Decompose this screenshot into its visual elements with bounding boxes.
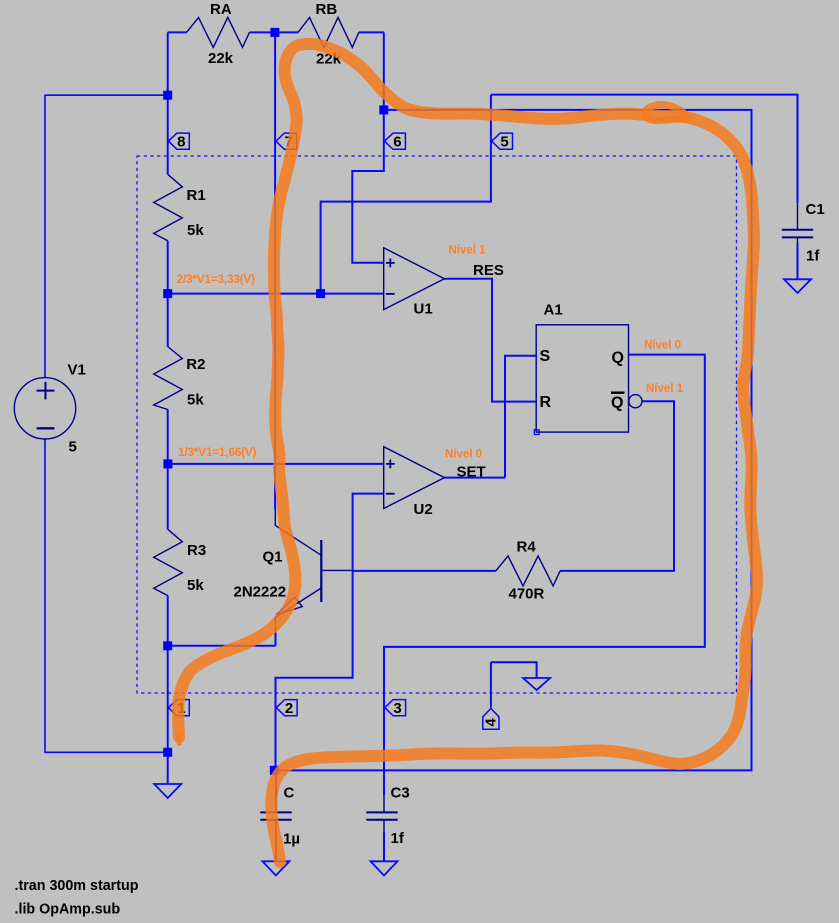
svg-text:Nível 1: Nível 1 [449,245,487,257]
svg-text:R2: R2 [186,356,205,373]
svg-text:Q1: Q1 [263,549,283,566]
svg-text:6: 6 [393,134,401,151]
svg-text:A1: A1 [544,302,563,319]
svg-text:Q: Q [612,350,624,367]
svg-text:Nível 0: Nível 0 [445,449,482,461]
svg-text:RA: RA [210,1,232,18]
svg-text:3: 3 [393,700,401,717]
svg-text:Nível 1: Nível 1 [646,383,684,395]
svg-text:R1: R1 [187,187,206,204]
svg-text:470R: 470R [509,586,545,603]
svg-text:5: 5 [69,439,77,456]
svg-text:1f: 1f [806,248,820,265]
svg-text:Q: Q [611,395,623,412]
svg-text:C1: C1 [806,201,825,218]
svg-text:Nível 0: Nível 0 [644,340,681,352]
svg-text:RB: RB [316,1,338,18]
svg-text:C: C [284,785,295,802]
svg-text:2/3*V1=3,33(V): 2/3*V1=3,33(V) [177,272,255,286]
svg-text:22k: 22k [208,50,234,67]
svg-text:SET: SET [457,464,486,481]
svg-text:.lib OpAmp.sub: .lib OpAmp.sub [15,902,121,918]
svg-text:C3: C3 [391,785,410,802]
svg-text:R4: R4 [517,539,537,556]
svg-text:8: 8 [177,134,185,151]
svg-text:5k: 5k [187,392,204,409]
svg-text:R: R [540,394,552,411]
svg-text:.tran 300m startup: .tran 300m startup [15,878,139,894]
svg-text:1/3*V1=1,66(V): 1/3*V1=1,66(V) [178,445,256,459]
svg-text:V1: V1 [68,362,86,379]
svg-text:U2: U2 [414,501,433,518]
svg-text:2: 2 [285,700,293,717]
svg-text:4: 4 [482,718,499,727]
svg-text:2N2222: 2N2222 [234,584,287,601]
svg-text:1f: 1f [391,830,405,847]
svg-text:5k: 5k [187,577,204,594]
svg-text:RES: RES [473,262,504,279]
svg-text:R3: R3 [187,542,206,559]
svg-text:U1: U1 [414,301,433,318]
svg-text:5: 5 [500,134,508,151]
svg-text:1µ: 1µ [283,831,300,848]
svg-text:5k: 5k [187,222,204,239]
svg-text:S: S [540,348,551,365]
